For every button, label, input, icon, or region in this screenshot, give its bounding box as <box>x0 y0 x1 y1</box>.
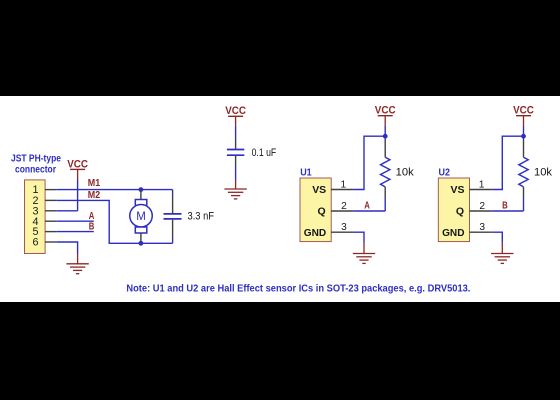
ground (U1) <box>353 243 375 264</box>
svg-text:connector: connector <box>15 163 56 175</box>
ground (connector) <box>66 254 88 274</box>
power VCC (connector) <box>67 158 88 179</box>
motor M1 <box>130 190 153 244</box>
svg-text:0.1 uF: 0.1 uF <box>252 147 277 159</box>
svg-text:A: A <box>89 211 95 222</box>
svg-text:A: A <box>364 200 370 211</box>
ground (U2) <box>491 243 513 264</box>
wire VCC to C <box>235 126 237 139</box>
pin numbers U2 <box>479 179 486 233</box>
svg-text:U2: U2 <box>439 167 451 178</box>
svg-text:B: B <box>89 221 95 232</box>
svg-text:6: 6 <box>32 237 38 249</box>
svg-text:3: 3 <box>341 222 347 233</box>
junction motor top <box>139 187 144 192</box>
wire U1 VS <box>353 136 385 189</box>
pin names U2 <box>442 184 465 239</box>
svg-text:VCC: VCC <box>513 105 534 117</box>
svg-text:M2: M2 <box>88 190 101 201</box>
junction motor bottom <box>139 241 144 246</box>
pin stubs U2 <box>470 190 492 233</box>
pin names U1 <box>304 184 327 239</box>
wire M1 <box>56 189 172 191</box>
svg-text:3: 3 <box>479 222 485 233</box>
connector JST PH-type label <box>11 152 61 175</box>
pin numbers 1-6 <box>32 184 38 248</box>
power VCC (U2) <box>513 105 534 126</box>
op-amp U1 body <box>300 178 331 242</box>
wire U1 Q <box>353 210 385 212</box>
wire pin6 to ground <box>56 242 77 254</box>
capacitor 0.1uF <box>227 139 244 166</box>
resistor R1 10k <box>381 136 390 211</box>
wire U2 VS <box>492 136 524 189</box>
wire C to ground <box>235 166 237 180</box>
svg-text:B: B <box>502 200 508 211</box>
wire A <box>56 220 94 222</box>
svg-text:M1: M1 <box>88 178 101 189</box>
svg-text:1: 1 <box>479 179 485 190</box>
pin numbers U1 <box>340 179 347 233</box>
svg-text:VS: VS <box>312 184 326 196</box>
svg-text:Q: Q <box>318 206 326 218</box>
svg-text:GND: GND <box>442 227 465 239</box>
svg-text:10k: 10k <box>534 167 552 179</box>
svg-text:2: 2 <box>341 201 347 212</box>
svg-text:2: 2 <box>479 201 485 212</box>
wire M2 <box>56 200 172 243</box>
pin stubs U1 <box>331 190 353 233</box>
op-amp U2 body <box>438 178 469 242</box>
svg-text:Note: U1 and U2 are Hall Effec: Note: U1 and U2 are Hall Effect sensor I… <box>126 283 470 294</box>
svg-text:Q: Q <box>456 206 464 218</box>
svg-text:3.3 nF: 3.3 nF <box>188 211 215 223</box>
connector body <box>25 180 46 254</box>
wire U2 Q <box>492 210 524 212</box>
junction U1 <box>383 134 388 139</box>
junction U2 <box>521 134 526 139</box>
svg-text:VS: VS <box>451 184 465 196</box>
svg-text:U1: U1 <box>300 167 312 178</box>
ground (0.1uF) <box>224 180 246 199</box>
wire pin3 to VCC <box>56 210 77 212</box>
connector pin stubs <box>45 190 56 242</box>
svg-text:GND: GND <box>304 227 327 239</box>
svg-text:10k: 10k <box>396 167 414 179</box>
svg-text:1: 1 <box>340 179 346 190</box>
svg-text:VCC: VCC <box>225 105 246 117</box>
resistor R2 10k <box>519 136 528 211</box>
wire B <box>56 231 94 233</box>
wire VCC to pin3 <box>77 180 79 211</box>
svg-text:VCC: VCC <box>375 105 396 117</box>
wire U1 GND <box>353 232 364 243</box>
wire VCC to junction U2 <box>523 126 525 137</box>
power VCC (0.1uF) <box>225 105 246 126</box>
wire VCC to junction U1 <box>384 126 386 137</box>
capacitor 3.3nF <box>164 190 182 244</box>
wire U2 GND <box>492 232 503 243</box>
power VCC (U1) <box>375 105 396 126</box>
svg-text:VCC: VCC <box>67 158 88 170</box>
svg-text:M: M <box>136 211 146 223</box>
